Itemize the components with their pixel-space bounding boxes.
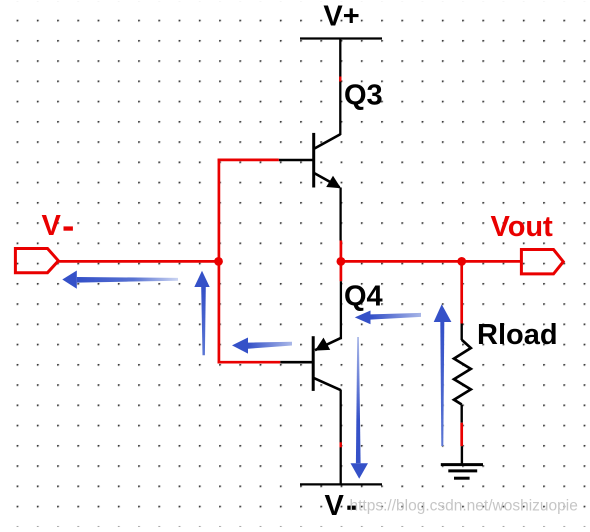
svg-text:Vout: Vout bbox=[491, 211, 554, 243]
power rail V+ wire bbox=[300, 37, 382, 39]
wire junction to Q4 emitter (black) bbox=[340, 281, 342, 339]
port Vout bbox=[521, 250, 563, 274]
current arrow down (below Q4) bbox=[351, 337, 369, 479]
svg-text:https://blog.csdn.net/woshizuo: https://blog.csdn.net/woshizuopie bbox=[350, 498, 578, 515]
wire Q4 collector lead bbox=[340, 390, 342, 485]
wire to Q3 base (red) bbox=[218, 159, 279, 162]
resistor Rload bbox=[454, 324, 471, 423]
red mark on Q4 collector wire bbox=[340, 442, 342, 447]
power rail V- (bottom) wire bbox=[300, 483, 382, 485]
junction node left bbox=[214, 257, 223, 266]
svg-text:V: V bbox=[42, 210, 62, 242]
junction node right bbox=[457, 257, 466, 266]
svg-text:V+: V+ bbox=[323, 1, 359, 33]
svg-text:Q3: Q3 bbox=[344, 79, 383, 111]
wire to ground (black) bbox=[461, 446, 463, 463]
svg-text:Q4: Q4 bbox=[344, 281, 383, 313]
ground bbox=[441, 465, 483, 479]
svg-text:Rload: Rload bbox=[477, 319, 558, 351]
current arrow left (at Q4 base) bbox=[232, 338, 292, 354]
current arrow up (left of left vertical wire) bbox=[194, 271, 209, 355]
wire center junction to Vout port (red) bbox=[341, 260, 522, 263]
transistor Q3 bbox=[279, 133, 341, 188]
wire right vertical to Rload (red) bbox=[460, 261, 463, 323]
wire Q3 collector lead bbox=[339, 39, 341, 136]
current arrow left (under output wire) bbox=[62, 271, 178, 289]
wire left vertical (red) bbox=[218, 159, 221, 364]
current arrow left (right of Q4) bbox=[355, 311, 421, 325]
wire Q3 emitter to junction (red) bbox=[340, 241, 343, 282]
wire Q3 emitter lead (black) bbox=[339, 188, 341, 241]
wire V- port to left junction (red) bbox=[58, 260, 219, 263]
port V- bbox=[15, 249, 58, 273]
svg-text:V: V bbox=[325, 490, 345, 522]
red mark on Q3 collector wire bbox=[339, 77, 341, 82]
junction node center bbox=[337, 257, 346, 266]
current arrow up (left of Rload) bbox=[434, 304, 452, 446]
wire resistor bottom (red) bbox=[460, 423, 463, 447]
transistor Q4 bbox=[280, 336, 341, 391]
wire to Q4 base (red) bbox=[218, 361, 281, 364]
